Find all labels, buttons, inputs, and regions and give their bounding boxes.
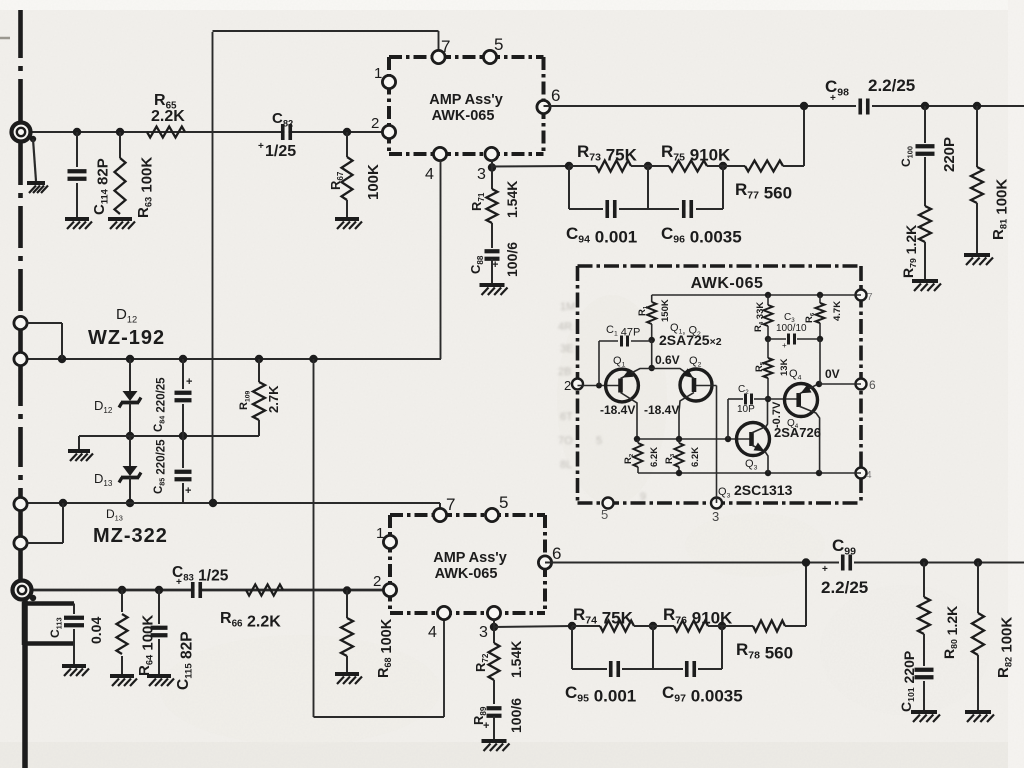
svg-text:MZ-322: MZ-322	[93, 525, 168, 547]
svg-text:-18.4V: -18.4V	[600, 403, 635, 417]
svg-text:1.54K: 1.54K	[504, 181, 520, 218]
svg-text:+: +	[176, 577, 182, 588]
svg-text:5: 5	[494, 35, 503, 54]
svg-text:6: 6	[869, 378, 876, 392]
svg-text:-0.7V: -0.7V	[771, 401, 783, 428]
svg-text:3: 3	[477, 166, 486, 183]
svg-text:0.6V: 0.6V	[655, 353, 680, 367]
svg-text:220P: 220P	[941, 137, 958, 172]
svg-text:6: 6	[551, 86, 560, 105]
svg-text:100K: 100K	[365, 164, 382, 200]
svg-text:6: 6	[552, 544, 561, 563]
svg-text:AMP Ass'y: AMP Ass'y	[429, 92, 503, 108]
svg-text:2: 2	[564, 378, 571, 393]
svg-text:10P: 10P	[737, 404, 755, 415]
svg-text:1: 1	[376, 525, 384, 542]
svg-text:100/10: 100/10	[776, 323, 807, 334]
svg-text:+: +	[782, 341, 787, 350]
svg-text:7: 7	[446, 495, 455, 514]
svg-text:1.54K: 1.54K	[508, 641, 524, 678]
svg-text:C96 0.0035: C96 0.0035	[661, 224, 742, 247]
svg-text:C85 220/25: C85 220/25	[153, 439, 168, 494]
svg-text:5: 5	[601, 507, 608, 522]
svg-text:-18.4V: -18.4V	[644, 403, 679, 417]
svg-text:4: 4	[866, 470, 872, 481]
svg-text:+: +	[830, 93, 836, 104]
svg-text:6.2K: 6.2K	[649, 447, 660, 467]
svg-text:7: 7	[867, 292, 873, 303]
svg-text:2SC1313: 2SC1313	[734, 482, 793, 498]
svg-text:2.2/25: 2.2/25	[868, 76, 915, 95]
svg-text:3: 3	[479, 624, 488, 641]
svg-text:4: 4	[428, 624, 437, 641]
svg-text:AMP Ass'y: AMP Ass'y	[433, 550, 507, 566]
svg-text:0V: 0V	[825, 367, 840, 381]
svg-text:AWK-065: AWK-065	[435, 566, 498, 582]
svg-text:AWK-065: AWK-065	[432, 108, 495, 124]
svg-text:100/6: 100/6	[508, 698, 524, 733]
svg-text:WZ-192: WZ-192	[88, 327, 165, 349]
svg-text:2.2/25: 2.2/25	[821, 578, 868, 597]
svg-text:4: 4	[425, 166, 434, 183]
svg-text:+: +	[822, 564, 828, 575]
svg-text:1: 1	[374, 65, 382, 82]
svg-text:150K: 150K	[660, 299, 671, 322]
svg-text:7: 7	[441, 37, 450, 56]
svg-text:1/25: 1/25	[265, 143, 296, 160]
svg-text:2: 2	[373, 573, 381, 590]
svg-text:+: +	[185, 485, 191, 497]
svg-text:C97 0.0035: C97 0.0035	[662, 683, 743, 706]
svg-text:0.04: 0.04	[88, 617, 104, 644]
svg-text:2.2K: 2.2K	[151, 108, 185, 125]
svg-text:4.7K: 4.7K	[832, 301, 843, 321]
svg-text:100/6: 100/6	[504, 242, 520, 277]
svg-text:2: 2	[371, 115, 379, 132]
svg-text:5: 5	[499, 493, 508, 512]
svg-text:AWK-065: AWK-065	[691, 275, 764, 292]
svg-text:6.2K: 6.2K	[690, 447, 701, 467]
svg-text:+: +	[258, 141, 264, 152]
svg-text:3: 3	[712, 509, 719, 524]
svg-text:C101 220P: C101 220P	[898, 651, 917, 712]
svg-text:2.7K: 2.7K	[266, 385, 281, 413]
svg-text:C84 220/25: C84 220/25	[153, 377, 168, 432]
svg-text:+: +	[186, 376, 192, 388]
